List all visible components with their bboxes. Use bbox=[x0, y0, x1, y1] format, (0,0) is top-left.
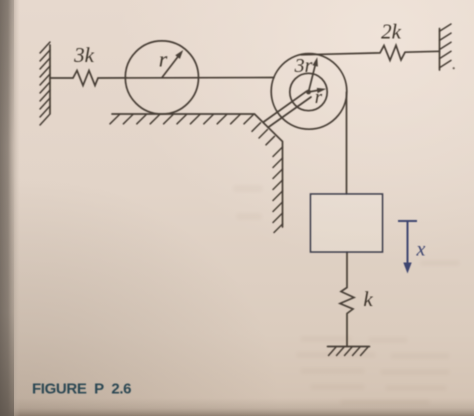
svg-text:2k: 2k bbox=[381, 20, 402, 44]
svg-text:x: x bbox=[416, 239, 426, 261]
svg-text:3r: 3r bbox=[294, 55, 313, 77]
svg-text:FIGURE P 2.6: FIGURE P 2.6 bbox=[32, 381, 132, 398]
svg-text:r: r bbox=[159, 47, 168, 72]
svg-text:3k: 3k bbox=[73, 43, 95, 67]
svg-text:k: k bbox=[363, 287, 373, 311]
svg-text:r: r bbox=[315, 87, 323, 108]
